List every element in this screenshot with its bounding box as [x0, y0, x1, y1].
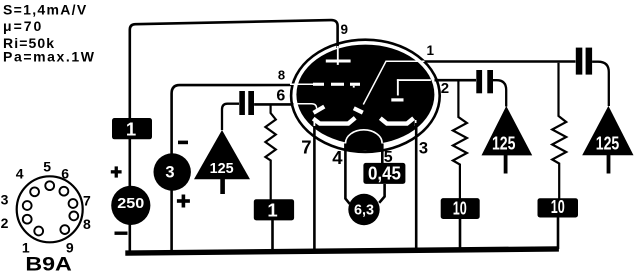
capacitor C2 [476, 70, 493, 93]
B9A socket pin 1 [34, 227, 43, 236]
wire box 0,45 to heater supply circle [379, 184, 384, 203]
svg-text:9: 9 [66, 239, 74, 255]
svg-text:1: 1 [267, 200, 277, 221]
tube V1 anode a' (pin 9) [326, 46, 351, 65]
signal probe T1 125 [194, 130, 250, 194]
wire resistor R3 box to common rail [459, 219, 462, 249]
svg-text:1: 1 [22, 239, 30, 255]
svg-text:8: 8 [278, 67, 285, 82]
svg-text:7: 7 [301, 137, 311, 158]
svg-text:Pa=max.1W: Pa=max.1W [3, 49, 96, 65]
wire anode supply from battery to pin 9 [130, 20, 338, 251]
svg-text:1: 1 [126, 119, 136, 140]
resistor R3 [453, 81, 467, 199]
svg-text:3: 3 [1, 192, 9, 208]
resistor R2 [265, 104, 275, 200]
B9A socket pin 9 [60, 225, 69, 234]
wire pin 6 to capacitor C1 and resistor R2 junction [254, 103, 293, 106]
svg-text:125: 125 [492, 134, 516, 154]
heater supply circle 6,3 [348, 194, 379, 225]
capacitor C1 [239, 91, 254, 115]
resistor R3 value box 10 [441, 198, 480, 219]
B9A socket pin 7 [69, 199, 78, 208]
wire pin 1 to capacitor C3 [425, 60, 576, 62]
svg-text:S=1,4mA/V: S=1,4mA/V [3, 2, 87, 18]
svg-text:0,45: 0,45 [368, 164, 401, 184]
wire pin 3 cathode to common rail [415, 123, 418, 250]
battery B2 3V [154, 141, 191, 208]
svg-text:4: 4 [332, 147, 343, 168]
svg-text:2: 2 [441, 80, 449, 97]
wire resistor R2 box to common rail [271, 220, 274, 251]
svg-text:10: 10 [453, 199, 467, 219]
wire capacitor C2 to probe T2 [493, 80, 506, 106]
svg-text:8: 8 [83, 216, 91, 232]
tube V1 cathode k' (pin 7) [313, 118, 355, 128]
svg-text:μ=70: μ=70 [3, 18, 43, 34]
B9A socket pin 6 [60, 187, 69, 196]
svg-text:1: 1 [427, 43, 435, 58]
B9A socket pin 3 [23, 201, 32, 210]
signal probe T3 125 [582, 106, 633, 174]
battery B1 250V [111, 166, 151, 235]
tube V1 cathode k'' (pin 3) [380, 118, 415, 126]
svg-text:125: 125 [596, 134, 620, 154]
wire pin 4 heater lead [345, 144, 349, 205]
svg-text:125: 125 [210, 160, 234, 177]
svg-text:9: 9 [340, 22, 348, 37]
svg-text:6: 6 [61, 165, 69, 181]
svg-text:3: 3 [165, 164, 174, 182]
svg-text:B9A: B9A [25, 255, 72, 276]
wire pin 5 heater lead [381, 144, 384, 165]
wire capacitor C3 to probe T3 [592, 62, 609, 106]
tube parameter note [3, 2, 96, 65]
heater current box 0,45 [363, 163, 405, 184]
svg-text:4: 4 [16, 165, 24, 181]
tube V1 heater filament dome [346, 130, 383, 151]
signal probe T2 125 [482, 106, 533, 174]
svg-text:7: 7 [83, 193, 91, 209]
svg-text:5: 5 [43, 159, 51, 175]
resistor R4 value box 10 [538, 197, 579, 218]
wire grid bias from battery B2 to pin 8 [172, 85, 292, 251]
resistor R1 value box 1 [112, 118, 152, 140]
tube V1 anode a'' lead and plate (pin 1) [354, 61, 431, 112]
B9A socket pin 4 [30, 187, 39, 196]
svg-text:3: 3 [419, 140, 428, 158]
capacitor C3 [576, 48, 592, 75]
resistor R2 value box 1 [254, 199, 294, 220]
B9A socket pin 2 [23, 215, 32, 224]
svg-text:6,3: 6,3 [354, 202, 374, 218]
svg-text:10: 10 [551, 197, 565, 217]
tube V1 grid g' dashed (pin 8) [290, 83, 360, 88]
B9A socket outline [17, 176, 83, 242]
wire pin 2 to capacitor C2 [435, 79, 477, 82]
svg-text:6: 6 [276, 88, 285, 105]
wire pin 7 cathode to common rail [313, 126, 316, 252]
svg-text:2: 2 [1, 215, 9, 231]
B9A socket pin 5 [45, 181, 54, 190]
B9A socket pin 8 [69, 212, 78, 221]
tube V1 electrode plate (pin 6) [294, 104, 324, 113]
tube V1 envelope [291, 40, 440, 152]
common rail [125, 246, 559, 256]
wire resistor R4 box to common rail [557, 218, 560, 250]
svg-text:250: 250 [117, 195, 144, 212]
resistor R4 [552, 63, 566, 199]
wire from probe T1 to capacitor C1 [222, 104, 239, 130]
tube V1 grid g'' element (pin 2) [391, 79, 431, 101]
